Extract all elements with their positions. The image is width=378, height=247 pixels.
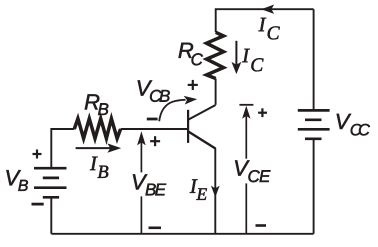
transistor collector slant: [188, 105, 216, 120]
minus sign VBE: [149, 227, 162, 230]
plus sign VB: [33, 150, 42, 159]
label VCB: [138, 80, 170, 101]
transistor emitter slant: [188, 131, 216, 148]
current arrow IE (on emitter wire, pointing down): [212, 186, 220, 196]
label IC top: [259, 18, 280, 40]
resistor RC zigzag: [207, 32, 224, 78]
voltage arrow VCE with top bar: [239, 105, 253, 234]
minus sign VB: [32, 203, 44, 206]
wire right upper: [313, 9, 315, 109]
plus sign VCE: [258, 108, 267, 117]
wire collector: [215, 79, 217, 105]
voltage arrow VBE: [138, 132, 146, 234]
plus sign VCB: [188, 80, 198, 90]
voltage arc VCB (curved arrow): [159, 96, 196, 121]
current arrow IB: [76, 144, 121, 152]
label IE: [190, 179, 207, 199]
label RB: [85, 94, 109, 115]
current arrow IC top (on wire, pointing left): [262, 5, 274, 13]
label RC: [179, 43, 203, 66]
plus sign VBE: [150, 136, 160, 146]
wire bottom: [51, 233, 313, 235]
label IC beside RC: [242, 49, 263, 72]
wire left branch bottom: [50, 198, 52, 234]
wire right lower: [313, 140, 315, 234]
current arrow IC beside RC: [232, 41, 241, 74]
label VB: [6, 170, 28, 191]
wire top: [216, 9, 314, 32]
wire base: [121, 128, 188, 130]
label IB: [90, 157, 108, 178]
wire left branch top: [51, 129, 74, 168]
resistor RB zigzag: [74, 119, 120, 139]
wire emitter down: [214, 148, 216, 234]
label VCE: [235, 160, 270, 182]
label VBE: [133, 174, 166, 195]
label VCC: [337, 114, 370, 136]
battery VB: [34, 168, 67, 197]
battery VCC: [298, 110, 330, 138]
transistor Q1: [188, 105, 216, 149]
minus sign VCB: [147, 118, 158, 121]
minus sign VCE: [256, 224, 267, 227]
transistor base bar: [187, 110, 189, 143]
